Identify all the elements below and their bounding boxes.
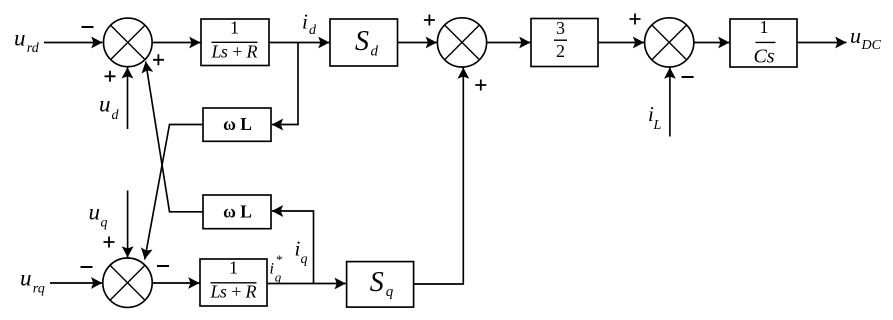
output wire to u_DC xyxy=(797,42,847,44)
label u_q xyxy=(89,200,108,231)
branch wire i_d down to wL1 xyxy=(272,43,298,125)
svg-text:d: d xyxy=(112,108,120,123)
svg-text:rq: rq xyxy=(33,281,45,296)
wire wL2 left stub and diagonal to S1 xyxy=(146,62,203,212)
wire 3/2 to summing junction S3 xyxy=(598,42,644,44)
plus sign at S2 left input xyxy=(424,15,435,26)
plus sign at S4 u_q input xyxy=(104,237,115,248)
svg-text:Ls + R: Ls + R xyxy=(211,42,258,62)
block Sd xyxy=(330,19,398,66)
input arrow i_L into S3 xyxy=(669,68,671,137)
block wL1 (top omega-L) xyxy=(203,108,271,141)
minus sign at S1 left input xyxy=(82,26,94,28)
svg-text:DC: DC xyxy=(861,38,882,53)
summing junction S1 xyxy=(104,18,153,67)
block 1/Cs xyxy=(730,17,797,68)
wire G1 to Sd block xyxy=(269,42,330,44)
plus sign at S1 u_d input xyxy=(105,71,116,82)
plus sign at S1 feedback input xyxy=(153,54,164,65)
plus sign at S3 left input xyxy=(630,14,641,25)
svg-text:S: S xyxy=(370,267,384,298)
wire Sq up to summing junction S2 xyxy=(414,68,464,285)
svg-text:1: 1 xyxy=(229,258,238,278)
input label u_rq xyxy=(20,266,45,297)
svg-text:S: S xyxy=(355,26,369,57)
summing junction S3 xyxy=(645,18,694,67)
branch wire i_q up to wL2 xyxy=(272,211,314,284)
svg-text:Cs: Cs xyxy=(753,46,774,68)
block 3/2 xyxy=(531,18,598,66)
svg-text:u: u xyxy=(20,266,32,291)
svg-text:u: u xyxy=(850,23,861,48)
block wL2 (bottom omega-L) xyxy=(203,195,271,229)
wire G2 to Sq block xyxy=(267,283,346,285)
svg-text:rd: rd xyxy=(27,41,40,56)
svg-text:*: * xyxy=(276,252,283,267)
node label i_q xyxy=(295,237,308,268)
minus sign at S4 feedback input xyxy=(157,265,169,267)
svg-text:1: 1 xyxy=(760,17,769,37)
svg-text:L: L xyxy=(653,118,662,133)
svg-text:q: q xyxy=(101,216,108,231)
wire S4 to block G2 xyxy=(152,282,199,284)
svg-text:q: q xyxy=(386,284,394,300)
summing junction S2 xyxy=(437,18,486,67)
wire u_rd to summing junction S1 xyxy=(44,42,103,44)
output label u_DC xyxy=(850,23,882,53)
svg-text:3: 3 xyxy=(556,18,565,38)
minus sign at S3 bottom input xyxy=(682,76,694,78)
wire S1 to block G1 xyxy=(152,42,200,44)
wire Sd to summing junction S2 xyxy=(398,42,437,44)
block G2 1/(Ls+R) xyxy=(200,258,267,307)
wire S2 to block 3/2 xyxy=(487,42,531,44)
wire wL1 left stub and diagonal to S4 xyxy=(145,125,203,260)
block Sq xyxy=(347,262,414,308)
svg-text:u: u xyxy=(89,200,101,225)
svg-text:u: u xyxy=(99,92,111,117)
svg-text:d: d xyxy=(371,44,379,60)
svg-text:ω L: ω L xyxy=(223,114,252,134)
input arrow u_q into S4 xyxy=(127,191,129,258)
svg-text:Ls + R: Ls + R xyxy=(210,282,257,302)
input arrow u_d into S1 xyxy=(127,67,129,129)
plus sign at S2 bottom input xyxy=(475,80,486,91)
svg-text:i: i xyxy=(270,261,274,278)
node i_d label xyxy=(302,10,317,39)
wire u_rq to summing junction S4 xyxy=(50,282,102,284)
node label i_q_star xyxy=(270,252,283,285)
svg-text:q: q xyxy=(275,270,282,285)
svg-text:i: i xyxy=(302,10,308,34)
svg-text:ω L: ω L xyxy=(223,202,252,222)
wire S3 to block 1/Cs xyxy=(694,42,730,44)
block G1 1/(Ls+R) xyxy=(201,18,269,66)
label i_L xyxy=(648,102,662,133)
svg-text:q: q xyxy=(301,252,308,267)
svg-text:2: 2 xyxy=(556,41,565,61)
label u_d xyxy=(99,92,120,124)
svg-text:1: 1 xyxy=(230,18,239,38)
input label u_rd xyxy=(14,25,40,56)
summing junction S4 xyxy=(103,258,152,307)
minus sign at S4 left input xyxy=(81,266,93,268)
svg-text:d: d xyxy=(309,23,317,38)
svg-text:u: u xyxy=(14,25,26,50)
